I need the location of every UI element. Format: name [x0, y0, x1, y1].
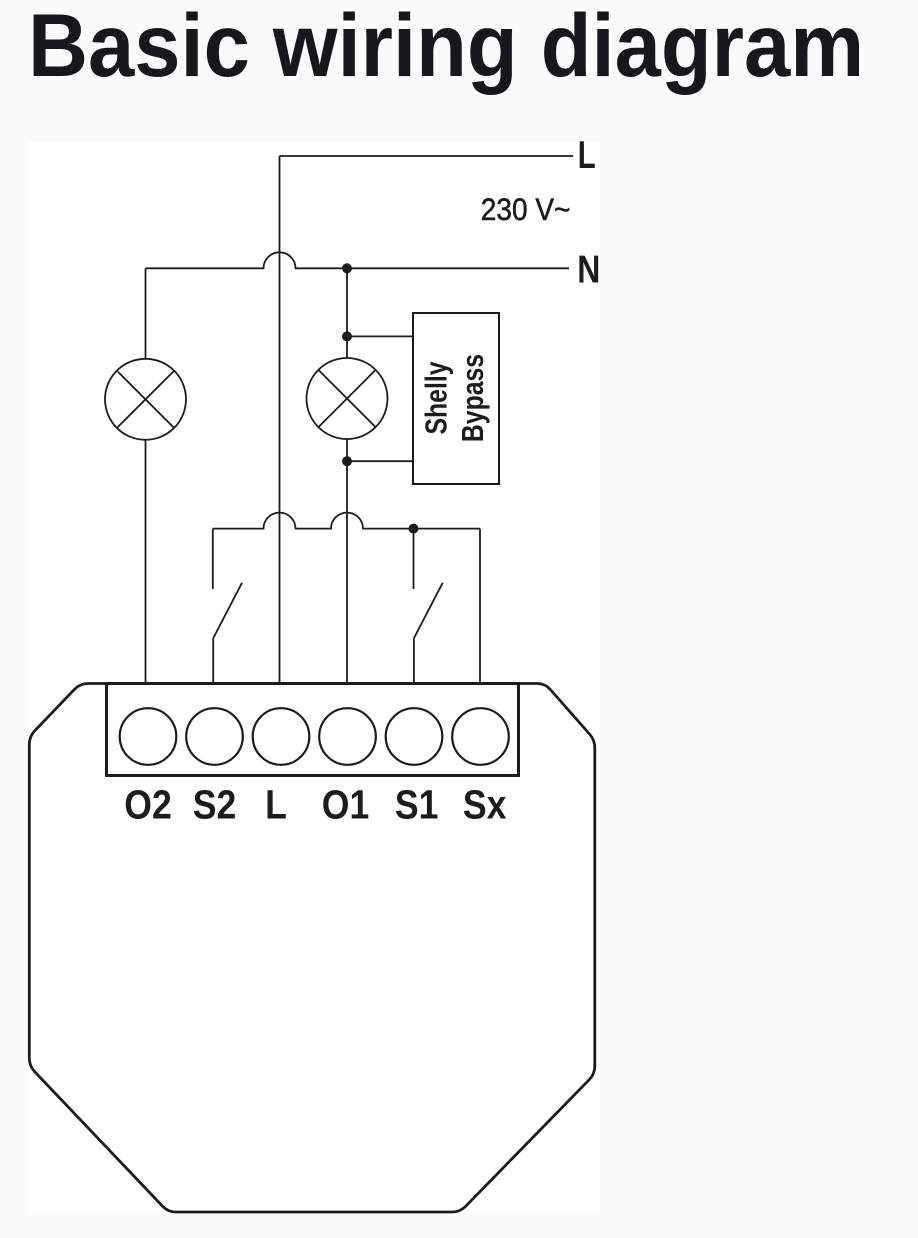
node bypass bottom tee: [342, 456, 352, 466]
terminal Sx: [452, 708, 509, 765]
wire L vertical drop to terminal L: [279, 156, 281, 684]
switch SW1: [414, 529, 443, 684]
svg-text:230 V~: 230 V~: [481, 193, 571, 228]
wire O2 branch down from N: [145, 268, 147, 359]
wire bypass top: [347, 335, 413, 337]
diagram white background: [28, 142, 600, 1215]
svg-text:L: L: [578, 134, 596, 177]
svg-text:L: L: [265, 782, 287, 828]
lamp DL1: [105, 359, 186, 440]
lamp DL2: [307, 358, 388, 439]
wire Sx line with hops over L and O1: [213, 513, 480, 529]
terminal S1: [386, 708, 443, 765]
node on N line: [342, 263, 352, 273]
wire lamp DL2 to terminal O1: [346, 439, 348, 684]
Shelly Bypass box: [413, 313, 499, 484]
terminal L: [253, 708, 310, 765]
wire N horizontal with hop over L: [146, 252, 570, 268]
terminal S2: [186, 708, 243, 765]
svg-text:Shelly: Shelly: [419, 361, 453, 434]
wire Sx vertical: [479, 529, 481, 684]
wire O1 branch from N down to lamp DL2: [346, 268, 348, 358]
switch SW2: [213, 529, 242, 684]
svg-text:S1: S1: [395, 782, 439, 828]
svg-text:O2: O2: [124, 782, 172, 828]
wire bypass bottom: [347, 460, 413, 462]
Shelly device octagon body: [29, 684, 595, 1213]
svg-text:S2: S2: [193, 782, 237, 828]
node bypass top tee: [342, 331, 352, 341]
svg-text:Sx: Sx: [463, 782, 507, 828]
node S1 tap: [409, 524, 419, 534]
svg-text:O1: O1: [322, 782, 370, 828]
terminal O2: [120, 708, 177, 765]
svg-text:N: N: [577, 248, 600, 292]
wire L top horizontal: [280, 155, 574, 157]
terminal O1: [319, 708, 376, 765]
terminal block: [107, 684, 519, 776]
svg-text:Bypass: Bypass: [455, 354, 489, 442]
wire lamp DL1 to terminal O2: [145, 440, 147, 684]
